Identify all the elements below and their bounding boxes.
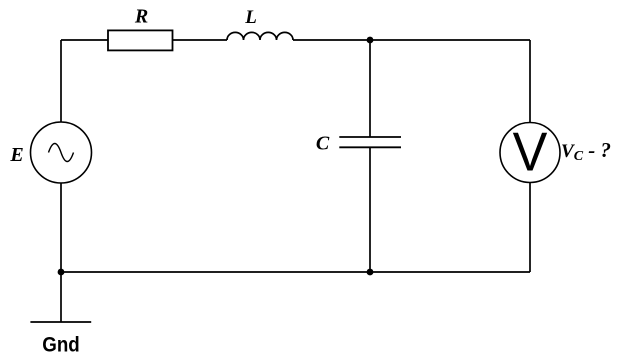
svg-text:VC - ?: VC - ? [561,138,611,164]
wire: capacitor top lead from top node down to top plate [369,40,371,137]
node: bottom-left junction dot [58,269,65,276]
svg-text:C: C [316,133,330,155]
voltmeter U1 (circle) [500,123,560,183]
source E (AC source circle) [31,122,92,183]
source E sine wave symbol [49,144,74,162]
wire: ground lead from bottom-left junction down to ground bar [60,272,62,322]
capacitor C top plate [339,136,401,138]
svg-text:Gnd: Gnd [42,334,80,357]
wire: top node to top-right corner [370,39,530,41]
inductor L (four semicircular humps) [227,32,293,40]
wire: voltmeter bottom to bottom-right corner [529,183,531,273]
svg-text:V: V [513,122,548,183]
wire: top rail from top-left corner to resistor left terminal [61,39,108,41]
wire: source E bottom to bottom-left junction [60,183,62,272]
resistor R (rectangle body) [108,30,173,50]
node: bottom junction dot under capacitor [367,269,374,276]
wire: bottom rail from bottom-left junction to bottom-right corner [61,271,530,273]
wire: right vertical from top-right corner down to voltmeter top [529,40,531,123]
capacitor C bottom plate [339,146,401,148]
svg-text:E: E [9,144,23,166]
svg-text:R: R [134,6,148,28]
node: top junction dot (capacitor branch tap) [367,37,374,44]
wire: resistor right terminal to inductor left end [173,39,228,41]
svg-text:L: L [244,7,257,28]
wire: capacitor bottom lead from bottom plate down to bottom rail [369,147,371,272]
wire: left vertical from top-left corner down to source E top [60,40,62,122]
ground bar [30,321,91,323]
wire: inductor right end to top node [293,39,370,41]
